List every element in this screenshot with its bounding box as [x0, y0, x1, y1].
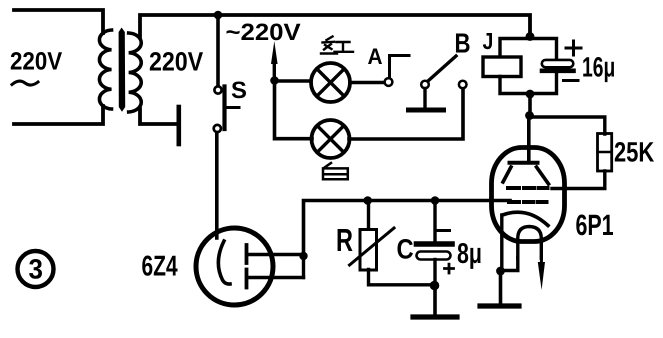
- label 6P1: [576, 215, 613, 236]
- 6Z4 plate bottom: [245, 270, 249, 288]
- ground lead C: [433, 285, 437, 314]
- label ~220V: [227, 24, 301, 41]
- label A: [368, 49, 382, 65]
- switch B blade: [428, 56, 456, 81]
- label R: [338, 229, 353, 251]
- heater supply arrow: [538, 262, 545, 290]
- 6Z4 cathode arc: [218, 241, 230, 284]
- minus sign 8u: [438, 229, 450, 232]
- label C: [397, 239, 413, 259]
- relay J coil: [483, 57, 521, 77]
- resistor 25K: [598, 134, 612, 172]
- minus sign 16u: [564, 79, 579, 82]
- label 8u: [458, 243, 481, 269]
- arrow to ~220V: [271, 41, 278, 64]
- transformer T1 core: [119, 28, 126, 112]
- 6P1 cathode pin: [500, 215, 503, 271]
- label red (hong): [321, 37, 353, 54]
- switch S bottom contact: [214, 125, 221, 132]
- wire to relay J: [500, 39, 530, 57]
- wire capacitor 16u to bottom junction: [533, 73, 557, 94]
- switch S actuator bar: [222, 87, 226, 130]
- label S: [232, 82, 246, 99]
- plus sign 8u: [445, 264, 454, 273]
- wire primary top lead: [14, 10, 103, 33]
- wire secondary top lead / top bus: [140, 15, 530, 37]
- wire to capacitor 16u: [530, 39, 557, 60]
- capacitor C 8u negative plate: [417, 241, 453, 247]
- node: junction dot top bus / switch S branch: [214, 11, 223, 20]
- wire heater pin to cathode node: [504, 258, 518, 271]
- ground bar 6P1: [480, 303, 519, 308]
- node: top right junction: [526, 32, 535, 41]
- tube 6Z4 envelope: [196, 228, 273, 305]
- ground lead 6P1: [499, 271, 503, 303]
- switch S actuator stub: [226, 106, 239, 109]
- terminal bar on secondary bottom: [177, 107, 182, 144]
- label J: [483, 33, 492, 49]
- resistor R (variable): [360, 230, 377, 271]
- wire secondary bottom lead: [140, 109, 176, 124]
- switch S top contact: [214, 86, 221, 93]
- label 220V primary: [11, 52, 62, 70]
- label 25K: [615, 142, 654, 162]
- node: R branch junction: [363, 196, 372, 205]
- 6P1 control grid dashes: [509, 200, 547, 204]
- 6P1 heater loop: [518, 227, 542, 259]
- tilde under 220V primary: [12, 81, 38, 85]
- 6P1 screen grid dashes: [508, 186, 548, 190]
- wire to lamp L1: [275, 79, 312, 83]
- wire C top lead: [433, 201, 436, 242]
- label B: [456, 34, 470, 53]
- wire R top lead: [367, 201, 370, 229]
- wire C bottom lead: [433, 260, 436, 284]
- wire 6Z4 plate connector: [302, 255, 305, 278]
- wire lamp L1 to terminal A: [350, 81, 385, 85]
- wire primary bottom lead: [14, 106, 103, 124]
- wire down to screen node: [528, 94, 532, 116]
- transformer T1 secondary winding: [129, 33, 142, 112]
- wire to lamp L2: [275, 82, 313, 139]
- ground under switch B: [409, 108, 444, 113]
- wire to resistor 25K: [530, 117, 605, 134]
- switch B left contact: [421, 81, 429, 89]
- terminal A contact: [385, 78, 393, 86]
- 6Z4 plate top: [245, 245, 249, 263]
- terminal A lead: [390, 56, 410, 79]
- tube 6P1 envelope: [492, 148, 565, 242]
- label white (bai): [323, 163, 348, 179]
- capacitor C 16u positive plate: [542, 60, 574, 67]
- node: screen/plate junction: [525, 111, 534, 120]
- lamp L1 (red): [311, 63, 350, 102]
- node: C ground junction: [430, 281, 440, 291]
- switch B right contact: [459, 81, 467, 89]
- lamp L2 (white): [312, 120, 350, 158]
- switch B left lead: [423, 89, 426, 108]
- capacitor C 8u positive plate: [417, 252, 451, 260]
- label 6Z4: [142, 256, 177, 276]
- R wiper arrow: [350, 228, 395, 265]
- wire plate lead into 6P1: [527, 116, 531, 162]
- node: cathode junction: [496, 267, 505, 276]
- wire 25K to screen grid: [552, 171, 605, 189]
- 6P1 cathode arc: [503, 212, 549, 225]
- wire 6Z4 to B+ rail: [304, 201, 511, 256]
- ground bar C: [413, 314, 457, 319]
- node: C branch junction: [431, 196, 440, 205]
- node: lamp branch junction: [270, 76, 279, 85]
- wire R bottom lead: [369, 270, 434, 285]
- label 220V secondary: [150, 52, 203, 71]
- wire lamp L2 to switch B: [349, 89, 463, 140]
- transformer T1 primary winding: [99, 30, 111, 109]
- node: junction below J and 16u: [526, 90, 535, 99]
- figure number circle 3: [18, 251, 54, 287]
- wire switch S to 6Z4: [215, 133, 219, 239]
- wire top bus to switch S: [216, 15, 220, 86]
- wire relay J to bottom junction: [500, 77, 527, 94]
- label 16u: [583, 57, 614, 82]
- node: 6Z4 plate junction: [299, 252, 307, 260]
- capacitor C 16u negative plate: [542, 69, 574, 74]
- plus sign 16u: [566, 41, 581, 55]
- 6P1 plate: [510, 161, 538, 165]
